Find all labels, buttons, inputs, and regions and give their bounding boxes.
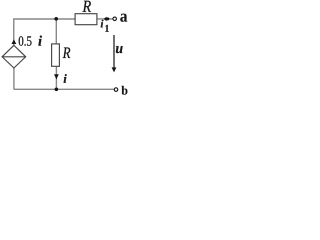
wire: bottom run to terminal b: [14, 88, 114, 90]
junction node dot: right node near terminal a: [106, 17, 109, 20]
voltage u arrow shaft (downward): [113, 35, 115, 68]
label i1 (italic i): [101, 20, 104, 28]
label b: [121, 86, 127, 95]
arrowhead of source B1 current direction (up): [12, 39, 17, 44]
junction node dot: bottom of middle branch: [55, 88, 59, 92]
resistor R1 (top horizontal box): [75, 14, 97, 25]
value label 0.5 of source B1: [19, 36, 32, 46]
label i of middle branch current: [64, 74, 67, 83]
wire: top run from top-left corner to resistor R1: [14, 18, 76, 20]
dependent current source B1 (diamond body with horizontal chord): [2, 45, 26, 68]
arrowhead of branch current i (down): [54, 74, 59, 79]
wire: from R1 right side to terminal a: [97, 18, 113, 20]
label i1 (subscript 1): [105, 25, 108, 32]
label R of resistor R1: [82, 1, 91, 12]
label R of resistor R2: [63, 48, 71, 58]
label i (controlling current) of source B1: [38, 36, 42, 46]
wire: left vertical lower segment: [13, 68, 15, 90]
wire: middle branch lower segment: [55, 66, 57, 89]
arrowhead of port current i1 (pointing left, into network): [104, 17, 107, 22]
terminal b (open circle): [114, 88, 118, 92]
label a: [120, 14, 127, 22]
wire: middle branch upper segment: [55, 19, 57, 44]
label u: [116, 46, 123, 53]
wire: left vertical upper segment: [13, 18, 15, 45]
resistor R2 (middle vertical box): [52, 44, 60, 66]
terminal a (open circle): [113, 17, 117, 21]
junction node dot: top of middle branch: [54, 17, 58, 21]
voltage u arrowhead (down): [112, 67, 117, 72]
